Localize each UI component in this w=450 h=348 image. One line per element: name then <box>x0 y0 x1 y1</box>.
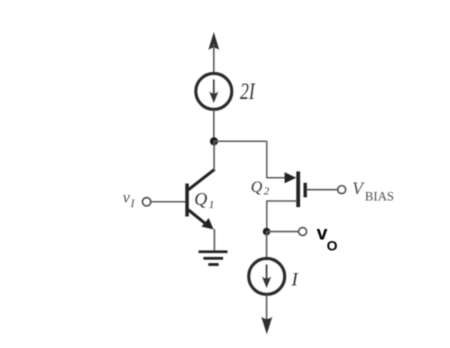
svg-text:v: v <box>123 189 131 206</box>
wire 2I to node <box>213 110 215 141</box>
wire v_I to base <box>151 201 186 203</box>
Q2 drain lead wire <box>267 201 297 232</box>
Q2 gate wire <box>307 189 338 191</box>
top supply arrow <box>208 32 219 73</box>
wire node to vO terminal <box>267 231 299 233</box>
current source 2I circle <box>196 73 232 109</box>
wire node to Q2 (horizontal) <box>214 140 267 142</box>
svg-text:2: 2 <box>264 186 270 198</box>
transistor Q1 collector <box>188 169 214 190</box>
transistor Q2 channel bar <box>296 171 300 207</box>
node vO junction dot <box>263 228 271 236</box>
current source I arrow <box>262 265 271 289</box>
wire I to bottom arrow <box>266 295 268 322</box>
wire down to Q2 source lead <box>267 141 286 178</box>
node A (top junction dot) <box>210 137 218 145</box>
V_BIAS terminal <box>338 186 346 194</box>
bottom rail arrow <box>261 317 272 335</box>
transistor Q1 base bar <box>185 184 189 217</box>
transistor Q1 emitter <box>188 210 206 225</box>
svg-text:Q: Q <box>251 179 263 196</box>
vO terminal <box>299 228 307 236</box>
current source 2I arrow <box>209 80 218 104</box>
wire vO node down to current source I <box>266 232 268 258</box>
Q2 source arrow <box>285 172 297 183</box>
svg-text:2I: 2I <box>240 79 256 104</box>
current source I circle <box>249 258 285 294</box>
Q1 emitter arrow <box>202 218 214 229</box>
svg-text:1: 1 <box>209 199 215 211</box>
svg-text:O: O <box>327 237 338 253</box>
v_I terminal <box>143 198 151 206</box>
svg-text:BIAS: BIAS <box>365 189 394 203</box>
transistor Q2 gate bar <box>304 183 307 198</box>
svg-text:Q: Q <box>194 189 207 209</box>
wire emitter to ground <box>213 229 215 251</box>
ground <box>199 250 228 266</box>
wire collector up to node <box>213 141 215 170</box>
